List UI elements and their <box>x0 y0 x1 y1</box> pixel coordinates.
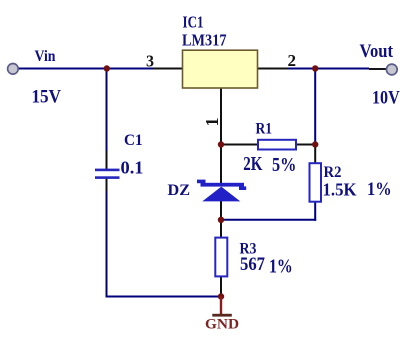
svg-text:2: 2 <box>288 51 297 70</box>
svg-text:1%: 1% <box>269 256 293 277</box>
node junction DZ anode <box>218 217 224 223</box>
svg-text:1%: 1% <box>367 179 392 200</box>
node junction Vin/C1 <box>104 65 110 71</box>
svg-text:DZ: DZ <box>168 182 191 199</box>
svg-text:3: 3 <box>146 51 154 70</box>
svg-text:C1: C1 <box>124 132 143 149</box>
pin 2 of IC1 <box>258 68 289 70</box>
op-amp IC1 body (LM317 regulator) <box>183 50 258 88</box>
wire node to R3 <box>220 220 222 238</box>
svg-text:IC1: IC1 <box>183 13 204 32</box>
svg-text:LM317: LM317 <box>182 31 227 50</box>
pin 1 of IC1 vertical <box>220 88 222 145</box>
resistor R3 <box>215 238 227 277</box>
wire R1 left lead <box>221 144 258 146</box>
node junction R1/R2 <box>312 141 318 147</box>
wire C1 branch vertical top <box>106 69 108 152</box>
terminal Vin <box>8 64 19 75</box>
svg-text:10V: 10V <box>372 88 400 109</box>
pin C1 top <box>106 151 108 169</box>
node junction Vout/R2 <box>312 65 318 71</box>
wire Vout rail <box>288 68 369 70</box>
pin 3 of IC1 <box>153 68 183 70</box>
svg-text:Vout: Vout <box>360 41 394 62</box>
svg-text:567: 567 <box>240 254 265 275</box>
resistor R2 <box>310 163 322 202</box>
svg-text:5%: 5% <box>272 155 296 176</box>
wire R2 bottom to horizontal <box>314 202 316 221</box>
wire Vout terminal stub <box>369 68 387 70</box>
wire Vout node down to R1/R2 node <box>314 69 316 145</box>
capacitor C1 <box>95 169 120 179</box>
svg-text:R1: R1 <box>256 121 273 138</box>
svg-text:GND: GND <box>205 317 239 333</box>
wire R3 to GND node <box>220 276 222 297</box>
wire Vin rail <box>18 68 153 70</box>
resistor R1 <box>258 140 296 150</box>
zener diode DZ <box>197 180 246 202</box>
svg-text:1: 1 <box>202 118 222 127</box>
wire pin1 node to DZ cathode <box>220 145 222 184</box>
wire C1 branch vertical bottom <box>106 191 108 298</box>
node junction pin1/R1 <box>218 141 224 147</box>
svg-text:0.1: 0.1 <box>121 158 144 178</box>
pin C1 bottom <box>106 178 108 191</box>
wire R2 top lead <box>314 145 316 164</box>
svg-text:2K: 2K <box>243 154 263 175</box>
node junction GND <box>218 293 224 299</box>
svg-text:Vin: Vin <box>35 48 56 65</box>
wire bottom horizontal to GND node <box>106 296 222 298</box>
wire R1 right lead <box>297 144 316 146</box>
wire DZ node to R2 bottom horizontal <box>220 219 316 221</box>
wire DZ anode to node <box>220 201 222 220</box>
svg-text:15V: 15V <box>32 87 62 108</box>
ground <box>205 297 239 333</box>
terminal Vout <box>386 64 397 75</box>
svg-text:1.5K: 1.5K <box>323 179 357 199</box>
